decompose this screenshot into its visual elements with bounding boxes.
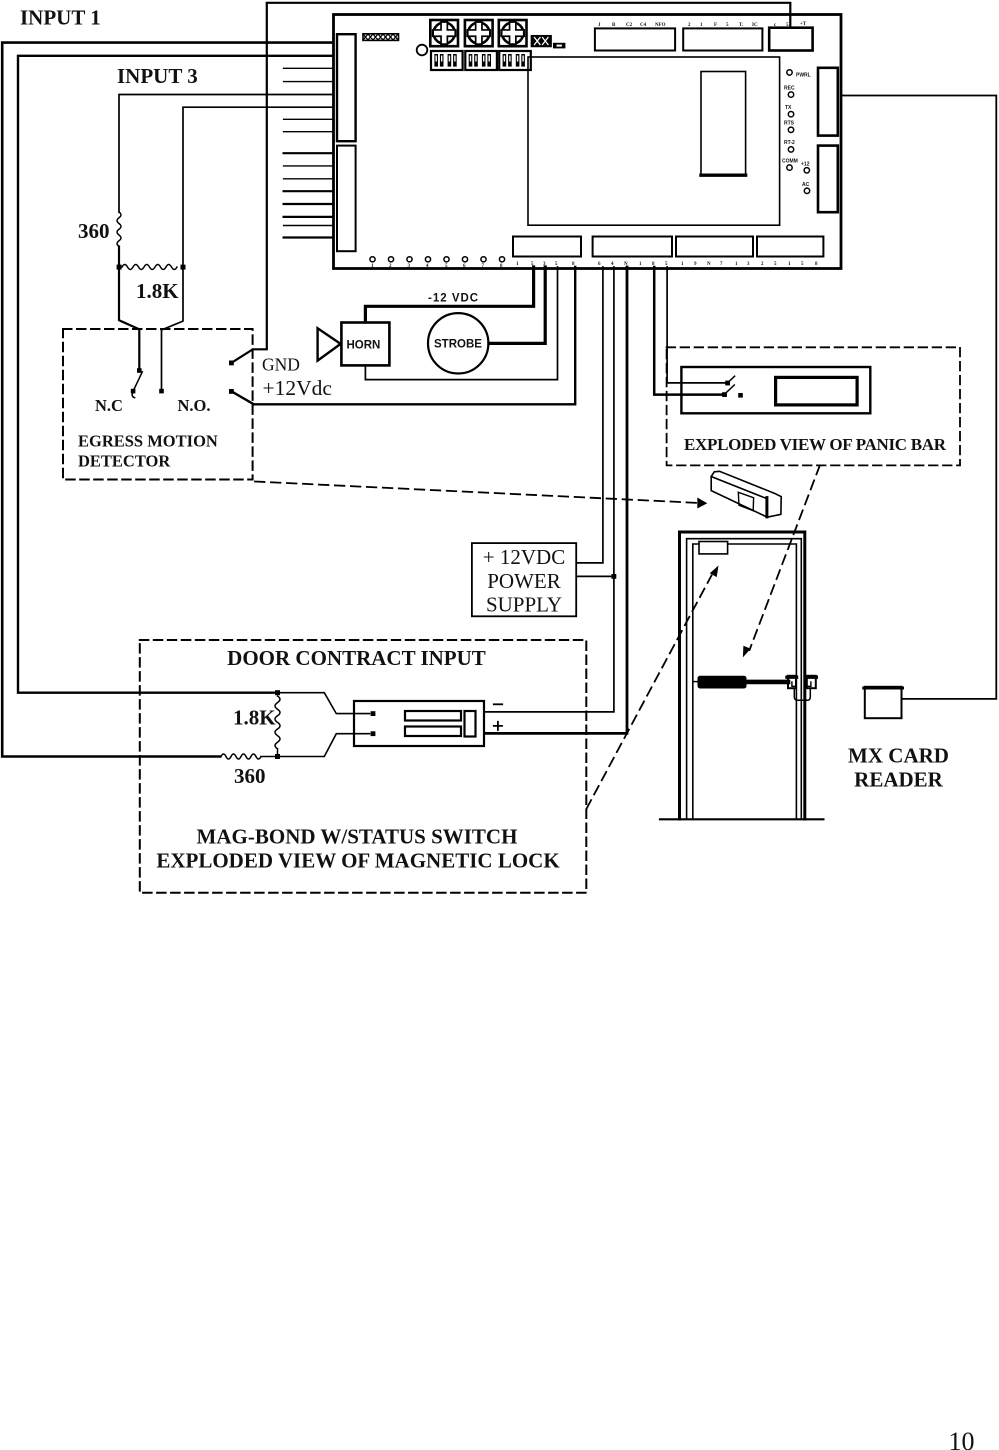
svg-text:C4: C4 [640, 23, 647, 28]
svg-text:C2: C2 [626, 23, 633, 28]
test pad labels 1-8 [371, 264, 503, 269]
svg-text:F: F [714, 23, 717, 28]
DIP switch SW2 [465, 51, 497, 70]
terminal N.O. [159, 389, 164, 394]
door leaf [693, 544, 797, 819]
wire GND (board to detector) [231, 3, 790, 363]
terminal block TB4 [513, 237, 581, 257]
status LED PWR [787, 70, 792, 75]
enclosure exploded panic bar [667, 347, 960, 465]
wire node B to N.O. terminal [162, 270, 184, 390]
svg-text:TX: TX [785, 105, 792, 111]
svg-text:-12 VDC: -12 VDC [428, 293, 479, 305]
wire input 1 hot [2, 43, 333, 757]
label + 12VDC POWER SUPPLY [483, 545, 565, 617]
arrow contact box to door plate [587, 566, 719, 809]
door frame outer [680, 532, 805, 819]
panic bar pad [776, 377, 858, 405]
svg-text:RT-2: RT-2 [784, 140, 795, 146]
resistor 360 (input 3) [117, 212, 121, 247]
status LED RTS [784, 121, 795, 133]
pin labels under TB7 [761, 262, 818, 267]
strobe [428, 313, 488, 373]
node PS junction [612, 574, 617, 579]
svg-text:N.C: N.C [95, 396, 123, 415]
connector J3 [553, 43, 565, 49]
arrow detector to panic bar 3d [255, 482, 707, 509]
terminal block TB6 [676, 237, 753, 257]
node C [275, 690, 280, 695]
svg-text:+12Vdc: +12Vdc [263, 376, 332, 400]
svg-text:360: 360 [78, 219, 110, 243]
door contact plate [699, 542, 728, 554]
status LED COMM [782, 159, 798, 171]
svg-text:1.8K: 1.8K [233, 706, 276, 730]
svg-text:+ 12VDC: + 12VDC [483, 545, 565, 569]
pin labels above TB1 [598, 23, 666, 28]
resistor 1.8K (door contact) [275, 696, 280, 754]
pin labels under TB5 [598, 262, 668, 267]
wire -12VDC (board to horn) [365, 267, 533, 321]
maglock plate 1 [405, 711, 461, 721]
+12V terminal dot [229, 389, 234, 394]
svg-text:RTS: RTS [784, 121, 795, 127]
speaker [318, 328, 341, 360]
svg-text:INPUT 3: INPUT 3 [117, 64, 198, 88]
wire 360 to node A [118, 247, 120, 266]
wire horn return [365, 267, 557, 380]
GND terminal dot [229, 361, 234, 366]
terminal block TB7 [757, 237, 823, 257]
svg-text:COMM: COMM [782, 159, 798, 165]
wire maglock positive [485, 267, 627, 733]
svg-text:N.O.: N.O. [178, 396, 211, 415]
maglock switch terminal plus [371, 731, 376, 736]
wire node C to maglock switch [280, 693, 370, 714]
wire input 1 return [18, 56, 333, 693]
board test pads TP1-TP8 [370, 257, 505, 262]
pin labels under TB6 [681, 262, 750, 267]
panic switch common arm [729, 376, 735, 382]
svg-text:EXPLODED VIEW OF PANIC BAR: EXPLODED VIEW OF PANIC BAR [684, 435, 947, 454]
card reader [864, 687, 903, 718]
node A [117, 265, 122, 270]
svg-text:STROBE: STROBE [434, 339, 482, 351]
control board outline [334, 15, 842, 269]
svg-text:MAG-BOND W/STATUS SWITCH: MAG-BOND W/STATUS SWITCH [197, 825, 518, 849]
panic bar housing [681, 367, 870, 413]
svg-text:PWRL: PWRL [796, 73, 811, 79]
svg-text:SUPPLY: SUPPLY [486, 593, 562, 617]
wire panic switch common [667, 267, 725, 383]
potentiometer VR1 [430, 20, 458, 46]
svg-text:10: 10 [949, 1427, 975, 1450]
svg-text:+T: +T [800, 22, 807, 27]
panic switch pole terminal [722, 392, 727, 397]
node D [275, 754, 280, 759]
status LED RT2 [784, 140, 795, 152]
wire +12Vdc (board to detector) [231, 267, 575, 404]
wire input 3 A [119, 95, 333, 213]
svg-text:DOOR CONTRACT INPUT: DOOR CONTRACT INPUT [227, 646, 486, 670]
label EGRESS MOTION DETECTOR [78, 432, 218, 471]
panic switch arm [725, 385, 734, 394]
maglock switch terminal minus [371, 711, 376, 716]
enclosure egress motion detector [63, 329, 253, 480]
enclosure door contract input [140, 640, 587, 893]
svg-text:INPUT 1: INPUT 1 [20, 5, 101, 29]
svg-text:IC: IC [752, 23, 758, 28]
svg-text:AC: AC [802, 182, 810, 188]
svg-text:MX CARD: MX CARD [848, 744, 949, 768]
svg-text:DETECTOR: DETECTOR [78, 452, 171, 471]
svg-text:+12: +12 [801, 162, 810, 168]
pin labels under TB4 [516, 262, 575, 267]
maglock plate 2 [405, 727, 461, 737]
terminal block TB5 [593, 237, 672, 257]
left connector J1 [337, 34, 356, 141]
jumper header JP1 [363, 34, 399, 41]
svg-text:NFO: NFO [655, 23, 666, 28]
terminal block TB1 [595, 28, 675, 50]
wire power supply negative feed [578, 575, 614, 577]
terminal block TB3 [769, 28, 812, 51]
horn [341, 323, 389, 366]
arrow panic box to door bar [743, 466, 820, 658]
processor [701, 72, 746, 176]
jumper block JP2 [531, 36, 551, 47]
wire input 3 B [183, 107, 333, 264]
resistor 360 (door contact) [221, 754, 275, 759]
panic bar 3d view [711, 471, 781, 517]
potentiometer VR2 [465, 20, 493, 46]
IC region [528, 57, 780, 225]
svg-text:READER: READER [854, 768, 944, 792]
label plus [494, 722, 502, 730]
wire maglock negative [485, 267, 614, 712]
maglock armature [465, 711, 476, 737]
status LED REC [784, 86, 795, 98]
svg-text:360: 360 [234, 764, 266, 788]
pin labels above TB2 [688, 23, 758, 28]
status LED AUX2 [802, 182, 810, 194]
left connector J2 [337, 146, 356, 252]
panic switch NO contact [738, 393, 743, 398]
magnetic lock body [354, 701, 484, 746]
svg-text:EXPLODED VIEW OF MAGNETIC LOCK: EXPLODED VIEW OF MAGNETIC LOCK [156, 849, 560, 873]
power supply box [472, 543, 576, 616]
LED D1 [417, 45, 428, 56]
resistor 1.8K (input 3) [122, 265, 177, 270]
svg-text:POWER: POWER [487, 569, 561, 593]
wire card reader [842, 96, 997, 699]
potentiometer VR3 [499, 20, 527, 46]
wire power supply positive feed [578, 267, 603, 563]
label minus [494, 703, 502, 705]
panic latch assembly [787, 676, 816, 701]
svg-text:GND: GND [262, 355, 300, 375]
right connector J4 [818, 68, 838, 136]
switch N.C contact [131, 389, 136, 394]
panic switch common terminal [725, 381, 730, 386]
wire strobe to board [489, 267, 545, 343]
switch N.C pivot [137, 368, 142, 373]
wire node A to N.C switch [119, 270, 139, 369]
wire node D to maglock switch [280, 734, 370, 757]
svg-text:1.8K: 1.8K [136, 279, 179, 303]
terminal block TB2 [683, 28, 762, 50]
switch N.C arm [132, 372, 142, 398]
status LED TX [785, 105, 794, 117]
status LED AUX1 [801, 162, 810, 174]
wire panic switch NC [654, 267, 722, 395]
svg-text:N: N [707, 262, 711, 267]
node B [181, 265, 186, 270]
door frame inner [687, 539, 802, 819]
svg-text:EGRESS MOTION: EGRESS MOTION [78, 432, 218, 451]
DIP switch SW1 [431, 51, 463, 70]
svg-text:REC: REC [784, 86, 795, 92]
label MX CARD READER [848, 744, 949, 792]
right connector J5 [818, 146, 838, 213]
connector stub wires (left of board) [284, 68, 333, 237]
DIP switch SW3 [499, 51, 531, 70]
panic bar on door [693, 676, 788, 689]
svg-text:HORN: HORN [347, 340, 381, 352]
pin labels above TB3 [774, 22, 807, 28]
floor line [660, 818, 823, 820]
